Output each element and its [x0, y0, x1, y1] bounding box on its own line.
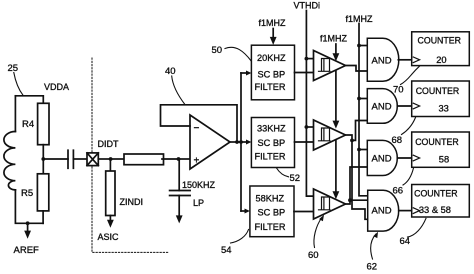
svg-text:R5: R5	[21, 188, 33, 199]
svg-text:54: 54	[221, 245, 232, 256]
leader for 70	[401, 66, 420, 84]
gate AND1	[367, 38, 399, 81]
comparator U3	[314, 120, 346, 150]
capacitor C2 150KHZ LP	[170, 191, 191, 196]
node label 66	[393, 186, 404, 197]
leader for 64	[408, 218, 427, 237]
wire node to C1	[43, 158, 68, 160]
svg-text:33: 33	[439, 104, 449, 114]
wire tap to comparator 2	[306, 126, 313, 128]
wire node B down to C2	[178, 159, 180, 191]
node AREF junction	[26, 221, 30, 225]
comparator U4	[314, 189, 346, 219]
svg-text:COUNTER: COUNTER	[414, 188, 458, 198]
node label 62	[367, 262, 378, 273]
wire f1MHZ mid segment 3	[335, 140, 337, 193]
svg-text:66: 66	[393, 186, 404, 197]
wire C2 bus down to AND4	[352, 140, 368, 219]
leader for 60	[314, 218, 322, 248]
leader for 54	[231, 230, 249, 244]
ground ASIC arrow	[109, 216, 111, 221]
node VTHDi tap comparator 1	[305, 57, 309, 61]
wire AND3 to counter 3	[397, 157, 411, 159]
node C2 bus junction	[350, 139, 354, 143]
comparator U2	[314, 51, 346, 81]
wire comparator U2 out to AND1	[346, 66, 368, 72]
svg-text:AREF: AREF	[14, 245, 40, 256]
wire tap to AND2	[359, 98, 367, 100]
node F tap AND2	[357, 97, 361, 101]
node label 54	[221, 245, 232, 256]
counter 1 (COUNTER 20)	[412, 32, 470, 66]
open arrow into counter 2	[413, 103, 419, 109]
leader for 68	[402, 118, 416, 135]
node F tap AND3	[357, 148, 361, 152]
svg-text:f1MHZ: f1MHZ	[346, 14, 374, 24]
svg-text:f1MHZ: f1MHZ	[259, 18, 287, 28]
node B junction	[177, 157, 181, 161]
node label 25	[8, 63, 19, 74]
node bus junction	[239, 140, 243, 144]
wire f1MHZ mid segment 1	[335, 44, 337, 54]
svg-text:R4: R4	[22, 119, 34, 130]
svg-text:SC BP: SC BP	[258, 138, 286, 148]
svg-text:VTHDi: VTHDi	[294, 1, 321, 11]
wire R6 to node B	[162, 158, 179, 160]
wire left vertical to inductor	[14, 96, 16, 132]
ground AREF arrow	[27, 223, 29, 231]
counter 3 (COUNTER 58)	[412, 132, 470, 167]
wire comparator U4 out	[346, 200, 368, 204]
wire AND2 to counter 2	[397, 105, 411, 107]
svg-text:COUNTER: COUNTER	[416, 86, 460, 96]
leader for 66	[403, 168, 414, 185]
svg-text:f1MHZ: f1MHZ	[320, 34, 348, 44]
counter 2 (COUNTER 33)	[412, 81, 470, 117]
op-amp U1	[190, 115, 230, 169]
gate AND2	[367, 89, 397, 124]
svg-text:20: 20	[436, 55, 446, 65]
wire R5 bottom	[42, 211, 44, 223]
ground arrow below C2	[178, 196, 180, 217]
wire R4 to node	[42, 145, 44, 159]
resistor ZINDI	[106, 171, 115, 216]
wire C2 bus up to AND2	[352, 121, 367, 141]
filter 50 (20KHZ SC BP FILTER)	[251, 45, 294, 100]
svg-text:33 & 58: 33 & 58	[419, 205, 451, 215]
node feedback junction	[235, 140, 239, 144]
net VTHDi	[294, 1, 321, 11]
node junction R4/R5	[41, 157, 45, 161]
wire f1MHZ arrow into filter 50	[272, 29, 274, 38]
wire node A to R6	[111, 158, 124, 160]
wire feedback loop	[161, 105, 238, 142]
svg-text:68: 68	[392, 135, 403, 146]
wire f1MHZ mid segment 2	[335, 70, 337, 122]
wire inductor bottom	[15, 190, 43, 223]
svg-text:62: 62	[367, 262, 378, 273]
boundary dotted ASIC	[92, 58, 168, 252]
open arrow into counter 4	[413, 208, 419, 214]
leader for 52	[277, 168, 289, 177]
wire filter bus vertical	[240, 73, 242, 211]
inductor L1	[4, 132, 16, 190]
wire C3 up to AND3	[350, 167, 367, 200]
clock label f1MHZ (right)	[346, 14, 374, 24]
svg-text:33KHZ: 33KHZ	[257, 124, 286, 134]
svg-text:58KHZ: 58KHZ	[256, 194, 285, 204]
svg-text:FILTER: FILTER	[255, 222, 286, 232]
svg-text:LP: LP	[193, 198, 204, 208]
leader for 40	[172, 76, 185, 105]
wire node to R5	[42, 159, 44, 174]
svg-text:VDDA: VDDA	[44, 82, 69, 92]
pad DIDT (crossed box)	[87, 153, 98, 166]
open arrow into counter 3	[413, 155, 419, 161]
svg-text:40: 40	[165, 66, 176, 77]
svg-text:25: 25	[8, 63, 19, 74]
wire tap to comparator 1	[306, 58, 313, 60]
node label 64	[400, 236, 411, 247]
node label 70	[393, 85, 404, 96]
wire AND4 to counter 4	[399, 210, 412, 212]
svg-text:DIDT: DIDT	[98, 139, 119, 149]
node A junction	[109, 157, 113, 161]
svg-text:150KHZ: 150KHZ	[182, 180, 216, 190]
wire top rail	[15, 96, 43, 104]
resistor R6	[124, 154, 164, 165]
wire filter 54 out	[294, 211, 314, 213]
node label 68	[392, 135, 403, 146]
svg-text:SC BP: SC BP	[258, 208, 286, 218]
leader for 50	[225, 47, 251, 61]
svg-text:COUNTER: COUNTER	[415, 137, 459, 147]
wire VTHDi vertical	[306, 11, 313, 197]
leader for 25	[14, 73, 23, 96]
svg-text:SC BP: SC BP	[258, 70, 286, 80]
svg-text:ASIC: ASIC	[98, 232, 120, 242]
node label 60	[308, 250, 319, 261]
counter 4 (COUNTER 33 & 58)	[412, 185, 470, 218]
wire tap to AND3	[359, 149, 367, 151]
wire comparator U3 out	[346, 135, 353, 140]
clock label f1MHZ (middle)	[320, 34, 348, 44]
net VDDA	[44, 82, 69, 92]
svg-text:50: 50	[212, 45, 223, 56]
svg-text:60: 60	[308, 250, 319, 261]
svg-text:52: 52	[290, 173, 301, 184]
wire op-amp output	[230, 141, 241, 143]
svg-text:−: −	[194, 123, 200, 134]
svg-text:FILTER: FILTER	[255, 82, 286, 92]
svg-text:+: +	[194, 156, 200, 167]
wire bus to filter 54	[241, 210, 245, 212]
wire pad to node A	[98, 158, 110, 160]
open arrow into counter 1	[413, 57, 419, 63]
svg-text:58: 58	[439, 154, 449, 164]
wire filter 50 out	[295, 72, 314, 74]
wire C1 to pad	[73, 158, 87, 160]
capacitor C1	[68, 150, 73, 168]
leader for 62	[371, 234, 376, 259]
svg-text:AND: AND	[372, 102, 392, 113]
svg-text:20KHZ: 20KHZ	[257, 53, 286, 63]
node label 50	[212, 45, 223, 56]
svg-text:AND: AND	[372, 56, 392, 67]
svg-text:COUNTER: COUNTER	[418, 36, 462, 46]
wire bus to filter 50	[241, 72, 247, 74]
wire filter 52 out	[295, 141, 314, 143]
wire node A to ZINDI	[109, 159, 111, 171]
node C3 branch junction	[348, 198, 352, 202]
svg-text:ZINDI: ZINDI	[120, 197, 144, 207]
node label 40	[165, 66, 176, 77]
gate AND4	[368, 190, 399, 231]
wire AND1 to counter 1	[398, 59, 411, 61]
filter 54 (58KHZ SC BP FILTER)	[250, 186, 294, 237]
svg-text:70: 70	[393, 85, 404, 96]
wire bus to filter 52	[241, 141, 247, 143]
wire node B to op-amp	[179, 158, 191, 160]
svg-text:AND: AND	[372, 154, 392, 165]
svg-text:FILTER: FILTER	[255, 152, 286, 162]
clock label f1MHZ (left)	[259, 18, 287, 28]
node label 52	[290, 173, 301, 184]
svg-text:64: 64	[400, 236, 411, 247]
gate AND3	[367, 140, 397, 175]
resistor R4	[38, 103, 49, 144]
resistor R5	[37, 174, 48, 211]
svg-text:AND: AND	[372, 206, 392, 217]
node VTHDi tap comparator 2	[305, 125, 309, 129]
wire tap to AND1	[359, 45, 367, 47]
node F tap AND1	[357, 44, 361, 48]
filter 52 (33KHZ SC BP FILTER)	[251, 118, 294, 168]
wire f1MHZ right vertical	[359, 24, 368, 196]
